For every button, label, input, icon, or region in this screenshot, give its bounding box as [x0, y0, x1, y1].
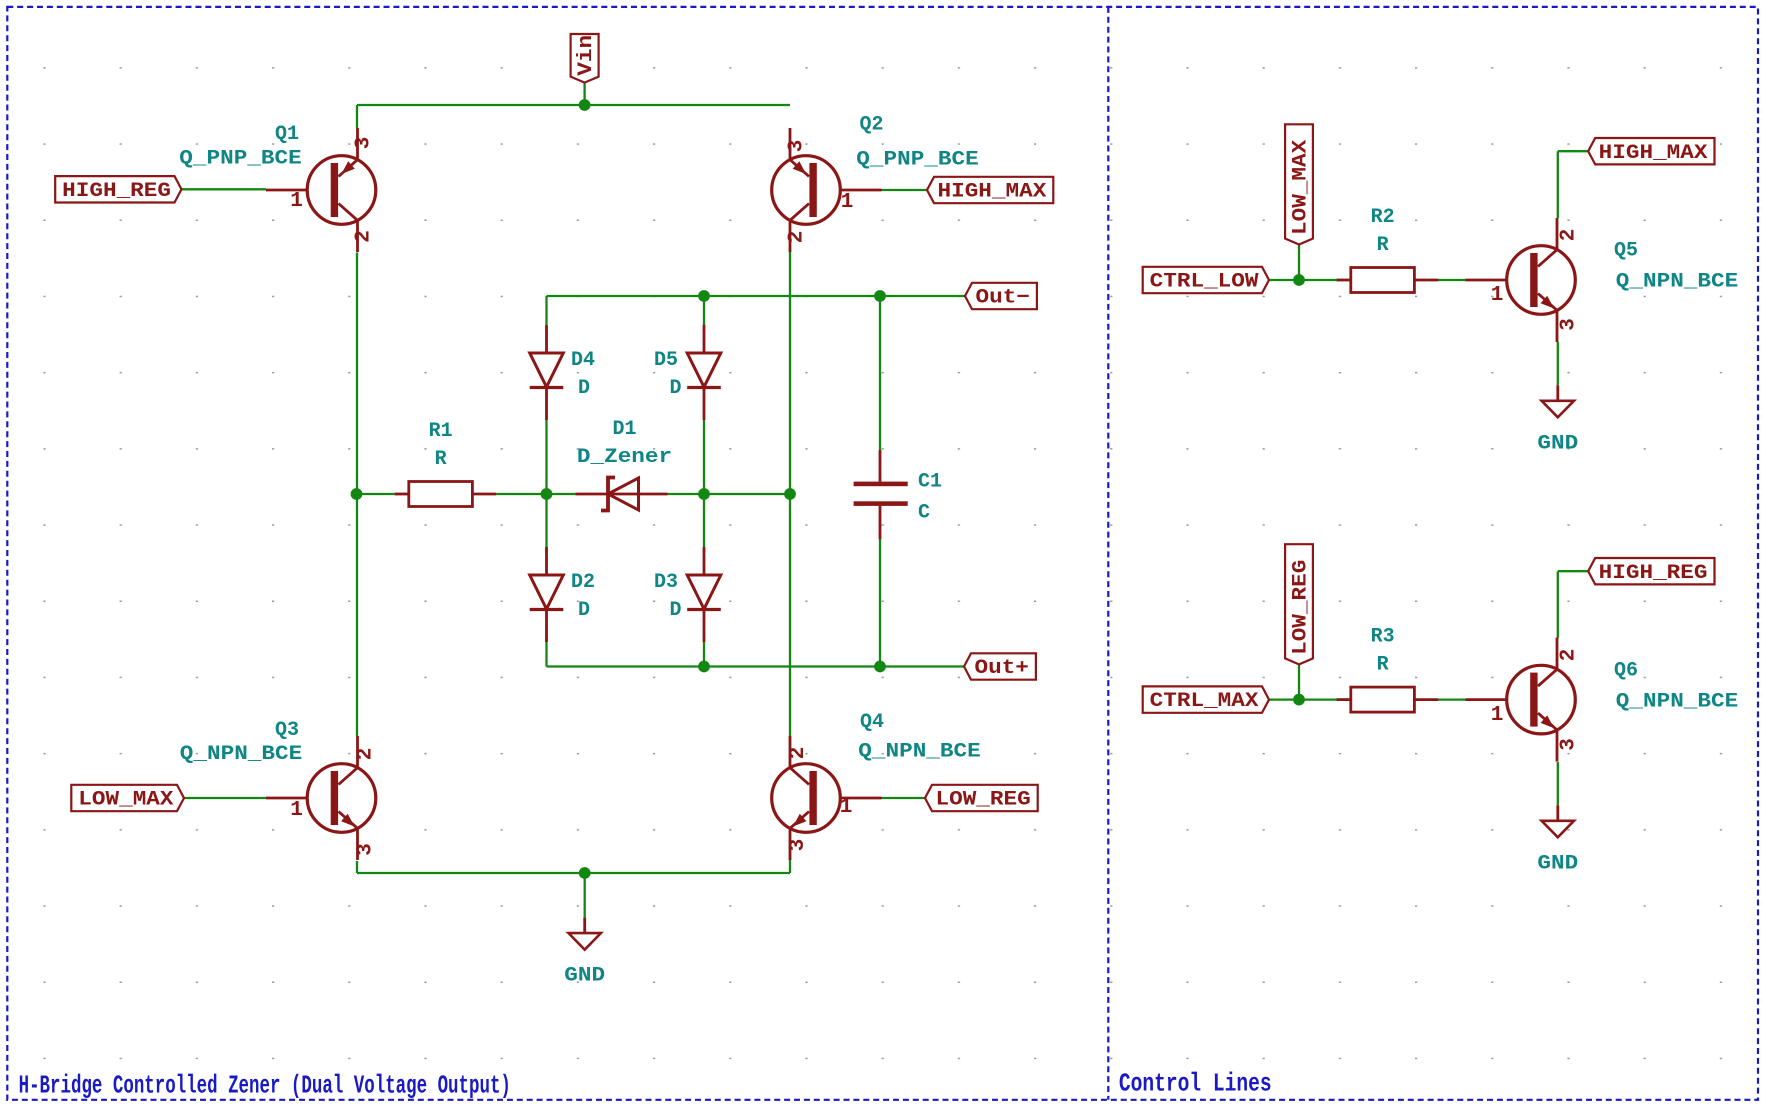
wire Q4 base to LOW_REG	[882, 797, 926, 799]
wire C1 top wire	[879, 296, 881, 450]
svg-text:GND: GND	[1537, 852, 1578, 875]
svg-text:D: D	[578, 599, 590, 622]
wire mid node to D1 cathode	[547, 493, 576, 495]
wire HIGH_REG to Q1 base	[182, 188, 267, 190]
label Q2 designator	[859, 113, 883, 136]
svg-text:Q_NPN_BCE: Q_NPN_BCE	[1616, 271, 1738, 294]
svg-text:D: D	[578, 377, 590, 400]
svg-text:Out+: Out+	[975, 657, 1029, 680]
svg-text:D: D	[670, 377, 682, 400]
svg-text:1: 1	[841, 191, 854, 214]
svg-text:R: R	[1377, 234, 1389, 257]
svg-text:R2: R2	[1371, 206, 1395, 229]
pin 3 of Q3	[355, 843, 378, 856]
svg-text:CTRL_LOW: CTRL_LOW	[1150, 271, 1259, 294]
wire D4 anode stub	[545, 296, 547, 325]
junction C1 / Out- bus	[874, 290, 886, 302]
label Q1 designator	[275, 123, 299, 146]
svg-text:LOW_MAX: LOW_MAX	[78, 789, 173, 812]
diode D4	[530, 325, 564, 420]
wire left trunk Q1-Q3	[356, 253, 358, 737]
svg-text:1: 1	[290, 190, 303, 213]
svg-text:Q1: Q1	[275, 123, 299, 146]
title Control Lines	[1119, 1068, 1272, 1098]
svg-text:2: 2	[355, 748, 378, 761]
wire CTRL_MAX to R3	[1269, 698, 1339, 700]
pin 2 of Q4	[787, 747, 810, 760]
label Q1 value Q_PNP_BCE	[179, 148, 301, 171]
svg-text:C1: C1	[918, 470, 942, 493]
svg-text:2: 2	[787, 747, 810, 760]
junction D column left / mid bus	[541, 488, 553, 500]
wire Q5 collector up	[1557, 151, 1559, 218]
wire Out+ bus	[547, 665, 965, 667]
pin 3 of Q1	[353, 137, 376, 150]
node HIGH_MAX (global label)	[927, 177, 1053, 204]
svg-text:D1: D1	[612, 418, 636, 441]
transistor Q6	[1466, 638, 1576, 762]
wire R1 to mid node	[496, 493, 546, 495]
label Q6 value Q_NPN_BCE	[1616, 691, 1738, 714]
pin 1 of Q6	[1491, 704, 1504, 727]
svg-text:2: 2	[786, 231, 809, 244]
svg-text:D_Zener: D_Zener	[577, 446, 672, 469]
svg-text:D2: D2	[571, 571, 595, 594]
svg-text:Q_NPN_BCE: Q_NPN_BCE	[180, 743, 302, 766]
svg-text:D5: D5	[654, 349, 678, 372]
junction LOW_REG / CTRL_MAX node	[1293, 694, 1305, 706]
label C1 value C	[918, 502, 930, 525]
svg-text:Q_PNP_BCE: Q_PNP_BCE	[179, 148, 301, 171]
node LOW_MAX (global label)	[1285, 124, 1313, 244]
svg-text:Q3: Q3	[275, 719, 299, 742]
junction D column right / mid bus	[698, 488, 710, 500]
svg-text:GND: GND	[564, 965, 605, 988]
pin 3 of Q5	[1558, 318, 1581, 331]
wire LOW_MAX to Q3 base	[184, 797, 266, 799]
wire Out- bus	[547, 295, 966, 297]
node LOW_REG (global label)	[925, 785, 1038, 812]
svg-text:CTRL_MAX: CTRL_MAX	[1150, 690, 1259, 713]
svg-text:R3: R3	[1371, 626, 1395, 649]
ground GND (left panel)	[564, 918, 605, 988]
pin 2 of Q5	[1558, 229, 1581, 242]
wire Vin top bus	[357, 104, 790, 106]
junction right trunk / mid bus	[784, 488, 796, 500]
svg-text:Q6: Q6	[1614, 659, 1638, 682]
label Q2 value Q_PNP_BCE	[856, 149, 978, 172]
pin 1 of Q5	[1491, 284, 1504, 307]
diode D5	[687, 325, 721, 420]
wire R3 to Q6 base	[1431, 698, 1466, 700]
pin 2 of Q3	[355, 748, 378, 761]
pin 1 of Q1	[290, 190, 303, 213]
svg-text:H-Bridge Controlled Zener (Dua: H-Bridge Controlled Zener (Dual Voltage …	[19, 1071, 511, 1101]
label D1 value D_Zener	[577, 446, 672, 469]
svg-text:1: 1	[1491, 704, 1504, 727]
svg-text:1: 1	[840, 796, 853, 819]
wire mid bus to D3 anode	[703, 494, 705, 547]
wire D4 cathode to mid bus	[545, 420, 547, 494]
wire Q6 collector up	[1557, 571, 1559, 638]
pin 2 of Q6	[1558, 649, 1581, 662]
transistor Q4	[772, 736, 882, 860]
label D1 designator	[612, 418, 636, 441]
label R1 value R	[435, 448, 447, 471]
resistor R3	[1337, 687, 1439, 712]
wire Q5 emitter to GND	[1557, 342, 1559, 385]
label D4 designator	[571, 349, 595, 372]
node HIGH_REG (global label)	[1588, 558, 1714, 585]
junction D3 / Out+ bus	[698, 661, 710, 673]
svg-text:R: R	[1377, 654, 1389, 677]
svg-text:2: 2	[353, 230, 376, 243]
node LOW_REG (global label)	[1285, 544, 1313, 664]
wire mid bus to D2 anode	[545, 494, 547, 547]
node Out− (global label)	[965, 283, 1037, 310]
label D2 designator	[571, 571, 595, 594]
wire CTRL_LOW to R2	[1269, 279, 1339, 281]
svg-text:C: C	[918, 502, 930, 525]
wire Q5 to HIGH_MAX	[1558, 150, 1588, 152]
svg-text:3: 3	[1558, 318, 1581, 331]
pin 3 of Q2	[786, 140, 809, 153]
title H-Bridge Controlled Zener (Dual Voltage Output)	[19, 1071, 511, 1101]
wire D5 cathode to mid bus	[703, 420, 705, 494]
junction Vin at top bus	[579, 99, 591, 111]
wire C1 bottom wire	[879, 539, 881, 667]
svg-text:Q_NPN_BCE: Q_NPN_BCE	[1616, 691, 1738, 714]
wire D1 anode to mid node	[668, 493, 704, 495]
svg-text:Q4: Q4	[860, 711, 884, 734]
svg-text:Control Lines: Control Lines	[1119, 1068, 1272, 1098]
ground GND (Q6)	[1537, 805, 1578, 875]
node CTRL_MAX (global label)	[1143, 686, 1269, 713]
svg-text:LOW_REG: LOW_REG	[1290, 560, 1313, 655]
label D3 designator	[654, 571, 678, 594]
resistor R1	[395, 482, 497, 507]
label D5 value D	[670, 377, 682, 400]
junction D5 / Out- bus	[698, 290, 710, 302]
power flag Vin	[571, 34, 599, 83]
wire LOW_REG stub	[1298, 664, 1300, 699]
wire Q6 to HIGH_REG	[1558, 570, 1588, 572]
svg-text:HIGH_MAX: HIGH_MAX	[938, 181, 1047, 204]
svg-text:D4: D4	[571, 349, 595, 372]
svg-text:Vin: Vin	[575, 35, 598, 76]
label D3 value D	[670, 599, 682, 622]
node Out+ (global label)	[964, 653, 1036, 680]
wire ground bus	[357, 872, 790, 874]
junction GND at ground bus	[579, 867, 591, 879]
svg-text:HIGH_REG: HIGH_REG	[62, 180, 171, 203]
svg-text:Q5: Q5	[1614, 239, 1638, 262]
label R2 value R	[1377, 234, 1389, 257]
wire trunk to R1	[357, 493, 395, 495]
label R2 designator	[1371, 206, 1395, 229]
label D5 designator	[654, 349, 678, 372]
svg-text:3: 3	[787, 839, 810, 852]
svg-text:Q2: Q2	[859, 113, 883, 136]
label Q4 value Q_NPN_BCE	[858, 741, 980, 764]
wire Q3 emitter down	[356, 861, 358, 873]
wire D3 cathode to Out+ bus	[703, 636, 705, 667]
ground GND (Q5)	[1537, 385, 1578, 455]
wire ground stub	[584, 873, 586, 918]
diode D3	[687, 547, 721, 642]
wire Q1 emitter to bus	[356, 105, 358, 128]
wire LOW_MAX stub	[1298, 245, 1300, 281]
svg-text:R: R	[435, 448, 447, 471]
label Q3 designator	[275, 719, 299, 742]
svg-text:2: 2	[1558, 229, 1581, 242]
zener diode D1	[575, 478, 667, 511]
wire Q4 emitter down	[789, 854, 791, 873]
label R1 designator	[429, 420, 453, 443]
pin 1 of Q2	[841, 191, 854, 214]
label Q4 designator	[860, 711, 884, 734]
svg-text:LOW_MAX: LOW_MAX	[1290, 140, 1313, 235]
resistor R2	[1337, 268, 1439, 293]
transistor Q5	[1466, 218, 1576, 342]
pin 3 of Q4	[787, 839, 810, 852]
label Q5 value Q_NPN_BCE	[1616, 271, 1738, 294]
svg-text:3: 3	[355, 843, 378, 856]
node HIGH_MAX (global label)	[1588, 138, 1714, 165]
label R3 value R	[1377, 654, 1389, 677]
svg-text:GND: GND	[1537, 432, 1578, 455]
svg-text:Q_NPN_BCE: Q_NPN_BCE	[858, 741, 980, 764]
node CTRL_LOW (global label)	[1143, 267, 1269, 294]
wire right trunk Q2-Q4	[789, 252, 791, 736]
label D2 value D	[578, 599, 590, 622]
label R3 designator	[1371, 626, 1395, 649]
svg-text:2: 2	[1558, 649, 1581, 662]
capacitor C1	[854, 450, 908, 539]
pin 2 of Q2	[786, 231, 809, 244]
junction left trunk / R1	[351, 488, 363, 500]
junction LOW_MAX / CTRL_LOW node	[1293, 274, 1305, 286]
diode D2	[530, 547, 564, 642]
wire Q6 emitter to GND	[1557, 762, 1559, 805]
label C1 designator	[918, 470, 942, 493]
svg-text:Out−: Out−	[976, 287, 1030, 310]
svg-text:HIGH_MAX: HIGH_MAX	[1599, 142, 1708, 165]
svg-text:3: 3	[353, 137, 376, 150]
pin 3 of Q6	[1558, 738, 1581, 751]
transistor Q3	[266, 736, 376, 860]
svg-text:Q_PNP_BCE: Q_PNP_BCE	[856, 149, 978, 172]
svg-text:3: 3	[1558, 738, 1581, 751]
wire mid bus to right trunk	[704, 493, 790, 495]
label Q6 designator	[1614, 659, 1638, 682]
label D4 value D	[578, 377, 590, 400]
svg-text:1: 1	[290, 799, 303, 822]
wire D2 cathode to Out+ bus	[545, 636, 547, 667]
wire Q2 base to HIGH_MAX	[882, 189, 928, 191]
svg-text:LOW_REG: LOW_REG	[936, 789, 1031, 812]
label Q3 value Q_NPN_BCE	[180, 743, 302, 766]
svg-text:D3: D3	[654, 571, 678, 594]
svg-text:R1: R1	[429, 420, 453, 443]
node HIGH_REG (global label)	[55, 176, 181, 203]
pin 2 of Q1	[353, 230, 376, 243]
junction C1 / Out+ bus	[874, 661, 886, 673]
wire R2 to Q5 base	[1431, 279, 1466, 281]
wire Vin stub	[583, 83, 585, 105]
wire D5 anode stub	[703, 296, 705, 325]
pin 1 of Q4	[840, 796, 853, 819]
node LOW_MAX (global label)	[71, 785, 184, 812]
svg-text:3: 3	[786, 140, 809, 153]
svg-text:D: D	[670, 599, 682, 622]
svg-text:HIGH_REG: HIGH_REG	[1599, 562, 1708, 585]
panel divider (dashed)	[1107, 7, 1109, 1100]
transistor Q2	[772, 128, 882, 252]
svg-text:1: 1	[1491, 284, 1504, 307]
pin 1 of Q3	[290, 799, 303, 822]
label Q5 designator	[1614, 239, 1638, 262]
transistor Q1	[266, 128, 376, 252]
